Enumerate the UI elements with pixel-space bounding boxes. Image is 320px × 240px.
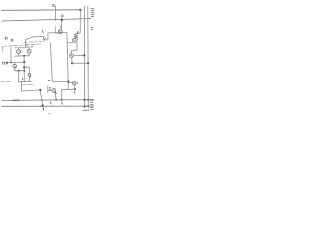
wire QE collector lead xyxy=(71,50,73,53)
node label 24 xyxy=(42,31,44,33)
wire P3 emitter xyxy=(14,69,16,71)
wire to V88 xyxy=(72,62,88,64)
wire center vertical down xyxy=(23,56,25,82)
node dot 18-71 xyxy=(18,70,20,72)
wire U bottom xyxy=(19,80,31,82)
box bottom edge left xyxy=(1,81,11,83)
node label 42 xyxy=(73,92,76,94)
wire QG drop xyxy=(28,67,30,73)
node dot on R4 xyxy=(41,104,43,106)
node dots on V84 V88 rails xyxy=(84,99,86,101)
node label 49 xyxy=(49,113,51,115)
node label 34 xyxy=(62,15,64,16)
node dot on V84 xyxy=(83,54,85,56)
wire QD emitter hook xyxy=(72,42,77,51)
node label 14 xyxy=(77,31,79,33)
wire T base xyxy=(48,32,67,34)
node dot on V88 xyxy=(87,62,89,64)
wire bus V88 xyxy=(87,6,90,108)
node dot on R3 xyxy=(61,99,63,101)
transistor Q-E xyxy=(70,54,74,58)
wire emitter bus xyxy=(14,55,29,57)
input arrow V xyxy=(43,38,45,41)
node dot QF on R3 xyxy=(55,99,57,101)
wire rail R4 xyxy=(2,105,94,107)
wire QG emitter xyxy=(29,77,31,81)
node label 12 xyxy=(15,47,16,49)
wire P2 emitter lead xyxy=(28,53,30,55)
wire mirror center vertical xyxy=(25,40,27,48)
node junction dot on L2 xyxy=(61,19,63,21)
wire QF base drop xyxy=(47,86,49,92)
node label 11 xyxy=(26,44,28,46)
wire P1 emitter lead xyxy=(18,54,20,56)
node label 7b xyxy=(11,39,13,41)
wire QE emitter xyxy=(71,58,73,63)
node label 46 xyxy=(61,102,63,104)
wire P2 collector lead xyxy=(28,47,30,49)
transistor Q-T xyxy=(58,30,62,34)
wire QF emitter xyxy=(55,92,56,100)
node dot 24-71 xyxy=(23,70,25,72)
wire P1 collector lead xyxy=(18,47,20,49)
node dot on LV xyxy=(67,81,69,83)
wire faint mid link xyxy=(22,83,33,86)
QF emitter arrow blob xyxy=(55,92,56,93)
transistor Q-F xyxy=(52,89,56,93)
wire W input xyxy=(26,36,45,39)
wire QF base xyxy=(48,90,52,92)
wire drop to R3 xyxy=(61,90,63,100)
node dot W1 xyxy=(10,61,12,63)
wire P3 top lead xyxy=(14,62,16,64)
wire node62 xyxy=(7,61,24,64)
wire U stub xyxy=(20,82,22,91)
node label 13 xyxy=(31,46,32,48)
node label 48 xyxy=(42,108,44,110)
wire emitter return xyxy=(62,88,75,90)
node dot 24-67 xyxy=(23,66,25,68)
wire mirror top link xyxy=(19,46,30,48)
node label 18 xyxy=(49,88,50,90)
wire bottom horizontal to LV xyxy=(52,80,68,82)
transistor Q-D xyxy=(73,39,77,43)
transistor Q-E2 xyxy=(72,81,76,85)
text right column bottom xyxy=(90,100,93,109)
transistor Q-G xyxy=(28,73,31,76)
node label 32 xyxy=(52,5,54,7)
wire rail R3 dark segment xyxy=(13,99,19,101)
node label 8 xyxy=(60,26,61,28)
wire QE2 emitter xyxy=(73,85,75,89)
wire mirror drop xyxy=(40,90,42,106)
wire QE2 base xyxy=(69,82,73,83)
node label h xyxy=(76,39,78,41)
node label 7a xyxy=(5,37,7,39)
wire top link xyxy=(21,90,40,91)
node dot 24-62 xyxy=(23,61,25,63)
text right column top xyxy=(91,8,94,30)
node dot drop-R3 crossing xyxy=(41,99,43,101)
transistor Q-P2 xyxy=(27,49,31,53)
wire link70 xyxy=(15,70,25,72)
node label 44 xyxy=(50,102,52,104)
node junction dot on L1 xyxy=(79,9,81,11)
node corner dot xyxy=(39,89,41,91)
transistor Q-P1 xyxy=(17,50,21,54)
wire vertical VA xyxy=(54,6,56,21)
node dot 75-89 xyxy=(74,88,76,90)
P3 emitter arrow xyxy=(14,67,16,68)
wire V80 drop xyxy=(76,10,80,33)
wire rail R3 xyxy=(2,99,94,102)
wire W1 vertical xyxy=(10,46,12,62)
wire QE to V84 xyxy=(73,54,84,56)
wire snake down xyxy=(46,33,48,40)
resistor R14 xyxy=(75,33,78,38)
wire bus V84 xyxy=(83,6,85,108)
wire VB collector xyxy=(60,17,63,30)
wire snake vertical xyxy=(50,43,52,82)
box dashed top edge right part xyxy=(24,41,44,44)
box dashed top edge xyxy=(3,44,41,46)
wire U left xyxy=(18,71,20,82)
wire VA lower stub xyxy=(55,27,57,34)
text bottom row 2B04 xyxy=(83,109,89,111)
wire rail L2 xyxy=(2,19,92,21)
node dot 72-63 xyxy=(71,62,73,64)
node dot bus xyxy=(23,55,25,57)
node label 36 xyxy=(48,79,49,81)
node dot left62 xyxy=(6,62,8,64)
wire QD base xyxy=(67,42,72,44)
node label 20 xyxy=(22,78,24,80)
wire rail L1 top xyxy=(2,9,81,12)
node label 16 cluster xyxy=(3,62,7,65)
wire long vertical LV xyxy=(67,33,68,90)
wire QG feed xyxy=(24,66,29,68)
transistor Q-P3 xyxy=(13,64,17,68)
box left edge xyxy=(2,46,4,52)
node label q xyxy=(76,82,78,84)
